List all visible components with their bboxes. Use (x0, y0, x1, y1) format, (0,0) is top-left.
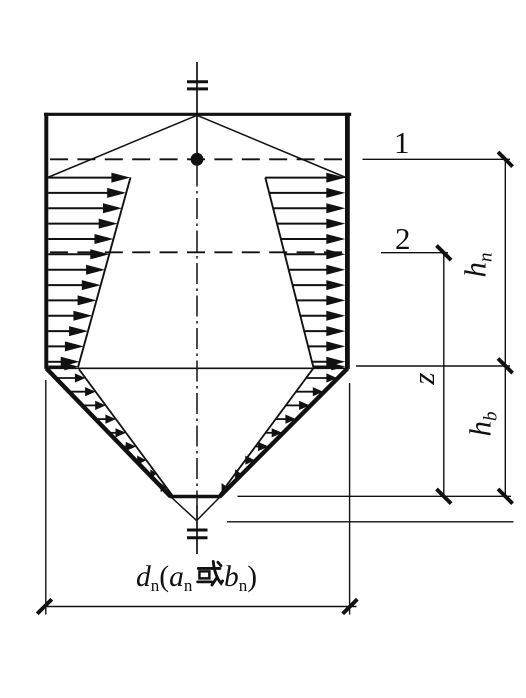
bottom extension line right (349, 383, 351, 615)
outlet level extension line (238, 495, 512, 497)
hopper-right pressure arrows (222, 373, 337, 492)
tick z bottom (437, 489, 452, 504)
transition line (48, 367, 346, 369)
surface node dot (191, 153, 204, 166)
bottom extension line left (45, 380, 47, 615)
label z (406, 373, 441, 386)
silo right wall (345, 113, 350, 369)
bottom dimension line (44, 606, 357, 608)
silo left wall (44, 113, 48, 369)
centerline top break marks (187, 80, 208, 83)
tick level2 (437, 246, 452, 261)
svg-text:2: 2 (395, 221, 411, 256)
hopper outlet (170, 495, 221, 499)
upper-right pressure arrows (265, 173, 345, 371)
hopper apex right line (197, 497, 221, 521)
dimension line hn hb (504, 159, 506, 496)
level 1 dashed line (50, 158, 344, 160)
centerline dash-dot (196, 166, 198, 506)
tick bottom right (343, 599, 358, 614)
tick bottom left (37, 599, 52, 614)
tick hb bottom (498, 489, 513, 504)
hopper-left pressure envelope (79, 369, 172, 495)
centerline top solid (196, 62, 198, 159)
apex level extension line (227, 521, 514, 523)
transition extension line (356, 365, 510, 367)
label hb (462, 412, 501, 437)
upper-left pressure envelope (78, 177, 131, 367)
upper-right pressure envelope (265, 178, 313, 368)
hopper apex left line (171, 497, 197, 521)
hopper-left pressure arrows (58, 373, 167, 492)
label dn(an huo bn) (136, 561, 257, 595)
hopper left wall (46, 368, 170, 496)
svg-text:z: z (406, 373, 441, 386)
dimension line z (443, 253, 445, 496)
level 2 dashed line (50, 251, 344, 253)
level 1 extension line (363, 158, 511, 160)
svg-text:1: 1 (394, 125, 410, 160)
material surface right slope (197, 115, 346, 177)
centerline bottom solid (196, 505, 198, 554)
hopper-right pressure envelope (219, 368, 313, 495)
hopper right wall (220, 368, 348, 496)
upper-left pressure arrows (48, 173, 130, 371)
label hn (458, 253, 497, 278)
material surface left slope (48, 115, 197, 177)
centerline bottom break marks (187, 529, 208, 532)
tick transition (498, 359, 513, 374)
tick level1 (498, 152, 513, 167)
silo top edge (44, 113, 351, 116)
level 2 extension line (381, 252, 448, 254)
